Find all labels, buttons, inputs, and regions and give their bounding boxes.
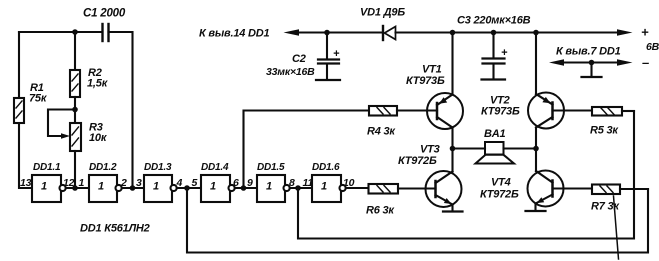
diode VD1 bbox=[360, 7, 405, 41]
transistor VT2 bbox=[481, 93, 564, 129]
svg-text:DD1.5: DD1.5 bbox=[257, 162, 285, 173]
wire pin6/9 up to R4 bbox=[244, 111, 370, 189]
svg-text:К выв.7 DD1: К выв.7 DD1 bbox=[556, 46, 621, 58]
svg-text:5: 5 bbox=[192, 177, 198, 189]
ground bar under C2 bbox=[316, 79, 340, 81]
node minus rail right arrowhead bbox=[617, 59, 633, 65]
svg-text:1: 1 bbox=[321, 181, 327, 193]
wire VT3 emitter stub bbox=[451, 205, 453, 212]
wire C1 right to vertical drop bbox=[109, 32, 133, 186]
svg-text:DD1.3: DD1.3 bbox=[144, 162, 172, 173]
speaker BA1 bbox=[476, 128, 515, 164]
svg-text:VT3: VT3 bbox=[420, 144, 440, 156]
svg-text:9: 9 bbox=[247, 177, 253, 189]
svg-text:DD1.1: DD1.1 bbox=[33, 162, 61, 173]
wire VT2 base to R5 bbox=[553, 109, 593, 111]
svg-text:1: 1 bbox=[98, 181, 104, 193]
wire feedback pin4/5 down and right bbox=[187, 188, 648, 253]
svg-text:КТ972Б: КТ972Б bbox=[480, 189, 519, 201]
svg-text:VT1: VT1 bbox=[422, 64, 442, 76]
gate DD1.6 bbox=[312, 162, 346, 202]
wire R3 bottom lead bbox=[74, 151, 76, 186]
capacitor C2 bbox=[266, 33, 340, 80]
svg-text:1: 1 bbox=[79, 177, 85, 189]
svg-text:1: 1 bbox=[41, 181, 47, 193]
wire top-left horizontal bbox=[19, 31, 102, 33]
svg-text:33мк×16В: 33мк×16В bbox=[266, 66, 315, 78]
wire feedback pin8/11 down and right bbox=[298, 111, 634, 239]
svg-text:+: + bbox=[641, 25, 649, 40]
svg-text:+: + bbox=[501, 47, 508, 59]
svg-text:КТ972Б: КТ972Б bbox=[398, 155, 437, 167]
gate DD1.2 bbox=[89, 162, 122, 202]
svg-text:3: 3 bbox=[136, 177, 142, 189]
wire DD1.3 out to DD1.4 in bbox=[177, 187, 201, 189]
ground bar under C3 bbox=[482, 78, 506, 80]
svg-text:R7 3к: R7 3к bbox=[591, 201, 620, 213]
gate DD1.1 bbox=[32, 162, 66, 202]
svg-text:С2: С2 bbox=[292, 53, 306, 65]
node junction pin4/5 bbox=[184, 185, 190, 191]
wire minus rail bbox=[557, 61, 622, 63]
wire R6 to VT3 base bbox=[398, 187, 436, 189]
capacitor C3 bbox=[457, 15, 531, 80]
wire R1 bottom to DD1.1 input bbox=[19, 123, 32, 188]
transistor VT1 bbox=[406, 64, 463, 130]
wire top rail right segment bbox=[396, 31, 623, 33]
node junction speaker right bbox=[533, 146, 539, 152]
wire stray diagonal bottom right bbox=[614, 196, 619, 259]
svg-text:VD1 Д9Б: VD1 Д9Б bbox=[360, 7, 405, 19]
svg-text:1,5к: 1,5к bbox=[87, 78, 109, 90]
wire R2 top lead bbox=[74, 32, 76, 70]
wire VT1 collector down to speaker node bbox=[451, 128, 453, 149]
svg-text:VT4: VT4 bbox=[491, 177, 511, 189]
svg-text:+: + bbox=[333, 48, 340, 60]
resistor R3 (trimmer) bbox=[70, 122, 108, 152]
wire DD1.1 out to DD1.2 in bbox=[66, 187, 89, 189]
resistor R2 bbox=[70, 67, 109, 97]
wire top rail left segment bbox=[295, 31, 382, 33]
node junction VT2 emitter on rail bbox=[533, 30, 539, 36]
wire rail to VT1 emitter bbox=[451, 33, 453, 95]
resistor R4 bbox=[367, 106, 397, 138]
wire VT3 collector up to speaker node bbox=[451, 149, 453, 172]
node minus rail left arrowhead bbox=[549, 59, 564, 65]
svg-text:DD1.4: DD1.4 bbox=[201, 162, 229, 173]
wire left vertical to R1 bbox=[18, 32, 20, 98]
svg-text:С3 220мк×16В: С3 220мк×16В bbox=[457, 15, 531, 27]
node junction C2 on rail bbox=[324, 30, 330, 36]
wire R2 to R3 bbox=[74, 97, 76, 123]
wire R5 right to feedback bbox=[622, 110, 634, 112]
svg-text:R6 3к: R6 3к bbox=[366, 205, 395, 217]
wire minus stub down bbox=[590, 63, 592, 77]
wire R3 wiper arm bbox=[48, 110, 75, 137]
wire rail to VT2 emitter bbox=[535, 33, 537, 95]
resistor R5 bbox=[590, 107, 622, 137]
svg-text:13: 13 bbox=[20, 177, 32, 189]
svg-text:75к: 75к bbox=[29, 93, 48, 105]
node junction pin2/3 with C1 line bbox=[130, 185, 136, 191]
wire speaker left bbox=[453, 147, 486, 149]
wire R7 right to feedback bbox=[620, 188, 648, 190]
wire speaker right bbox=[504, 147, 537, 149]
node junction pin8/11 bbox=[295, 185, 301, 191]
wire VT4 collector up to speaker node bbox=[535, 149, 537, 172]
gate DD1.4 bbox=[201, 162, 235, 202]
wire R4 to VT1 base bbox=[397, 109, 437, 111]
wire DD1.5 out to DD1.6 in bbox=[290, 187, 312, 189]
node junction pin6/9 bbox=[241, 185, 247, 191]
svg-text:DD1.6: DD1.6 bbox=[312, 162, 340, 173]
svg-text:КТ973Б: КТ973Б bbox=[406, 75, 445, 87]
node junction minus stub bbox=[589, 60, 595, 66]
resistor R1 bbox=[14, 82, 48, 123]
ground bar under VT3 bbox=[443, 210, 463, 212]
svg-text:10к: 10к bbox=[89, 132, 108, 144]
svg-text:DD1.2: DD1.2 bbox=[89, 162, 117, 173]
node rail right arrowhead to +6V bbox=[617, 29, 633, 35]
svg-text:C1 2000: C1 2000 bbox=[83, 8, 126, 20]
node junction C3 on rail bbox=[491, 30, 497, 36]
capacitor C1 bbox=[83, 8, 126, 42]
svg-text:DD1 К561ЛН2: DD1 К561ЛН2 bbox=[80, 223, 150, 235]
gate DD1.3 bbox=[144, 162, 177, 202]
wire DD1.6 out to R6 bbox=[346, 187, 369, 189]
gate DD1.5 bbox=[257, 162, 290, 202]
svg-text:BA1: BA1 bbox=[484, 128, 505, 140]
node rail left arrowhead to pin14 DD1 bbox=[284, 29, 300, 35]
svg-text:КТ973Б: КТ973Б bbox=[481, 106, 520, 118]
svg-text:1: 1 bbox=[153, 181, 159, 193]
resistor R7 bbox=[591, 185, 620, 213]
svg-text:6В: 6В bbox=[646, 41, 659, 53]
svg-text:R4 3к: R4 3к bbox=[367, 126, 396, 138]
node R3 wiper arrowhead bbox=[61, 133, 70, 138]
node junction VT1 emitter on rail bbox=[450, 30, 456, 36]
wire VT4 base to R7 bbox=[553, 187, 593, 189]
wire DD1.2 out to DD1.3 in bbox=[122, 187, 144, 189]
node junction R2/R3 bbox=[72, 107, 78, 113]
transistor VT4 bbox=[480, 171, 564, 207]
svg-text:R5 3к: R5 3к bbox=[590, 125, 619, 137]
node junction R2 top bbox=[72, 29, 78, 35]
transistor VT3 bbox=[398, 144, 462, 208]
svg-text:К выв.14 DD1: К выв.14 DD1 bbox=[199, 28, 270, 40]
wire VT4 emitter stub bbox=[534, 204, 536, 211]
node junction speaker left bbox=[450, 146, 456, 152]
ground bar under minus rail bbox=[582, 76, 602, 78]
svg-text:–: – bbox=[642, 55, 649, 70]
ground bar under VT4 bbox=[526, 210, 546, 212]
resistor R6 bbox=[366, 184, 398, 217]
svg-text:1: 1 bbox=[210, 181, 216, 193]
svg-text:1: 1 bbox=[266, 181, 272, 193]
wire DD1.4 out to DD1.5 in bbox=[235, 187, 257, 189]
wire VT2 collector down to speaker node bbox=[535, 128, 537, 149]
node junction pin12/1 with R3 bbox=[72, 185, 78, 191]
